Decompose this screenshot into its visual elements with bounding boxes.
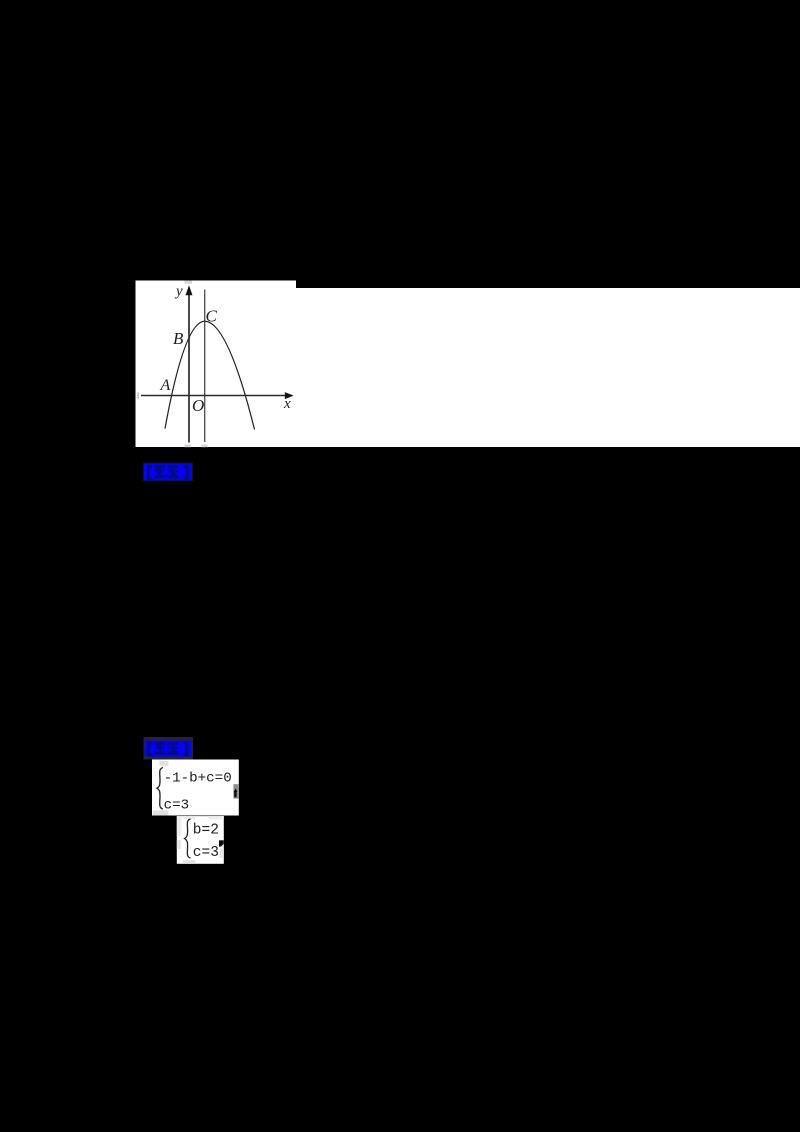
x-axis — [141, 395, 286, 397]
svg-text:y: y — [174, 283, 183, 299]
blue tag 1 — [144, 464, 192, 481]
svg-text:c=3: c=3 — [164, 798, 190, 814]
eq box1 artifact top-left — [159, 761, 168, 766]
graph white box — [136, 281, 297, 448]
eq box2 artifact left column — [177, 816, 181, 836]
grey tick left edge at x-axis — [137, 392, 139, 399]
eq box2 artifact left lower — [177, 840, 181, 849]
axis of symmetry line — [204, 290, 206, 443]
eq box2 artifact bottom strip — [183, 860, 195, 864]
white band — [296, 288, 800, 447]
eq box1 grey handle — [233, 784, 238, 798]
eq box1 artifact bottom-left — [153, 810, 169, 815]
grey tick above y-axis — [185, 281, 193, 284]
equation box 2 — [177, 816, 224, 864]
y-axis — [188, 294, 190, 443]
eq box2 mark white notch — [221, 844, 224, 847]
svg-text:B: B — [173, 329, 184, 348]
svg-text:-1-b+c=0: -1-b+c=0 — [164, 771, 232, 787]
eq box2 artifact top strip — [183, 816, 194, 819]
x-axis arrowhead — [285, 392, 294, 399]
equation box 1 — [152, 760, 239, 816]
svg-text:c=3: c=3 — [193, 845, 219, 861]
eq box2 artifact right strip — [220, 849, 224, 859]
svg-text:b=2: b=2 — [193, 823, 219, 839]
y-axis arrowhead — [186, 285, 193, 295]
eq box2 brace — [185, 819, 191, 858]
svg-text:A: A — [160, 377, 171, 394]
eq box1 handle arrow — [234, 788, 238, 797]
blue tag 2 grey box — [144, 737, 194, 760]
eq box2 black mark — [219, 840, 224, 846]
eq box2 artifact top right strip — [208, 816, 224, 819]
blue tag 1 halo — [143, 463, 193, 482]
svg-text:C: C — [206, 306, 218, 325]
svg-text:O: O — [192, 396, 204, 415]
blue tag 2 — [145, 741, 192, 757]
eq box1 brace — [157, 768, 163, 810]
svg-text:x: x — [283, 396, 291, 412]
grey tick below y-axis — [185, 444, 191, 447]
parabola curve — [165, 321, 255, 429]
grey tick below symmetry line — [202, 444, 208, 447]
